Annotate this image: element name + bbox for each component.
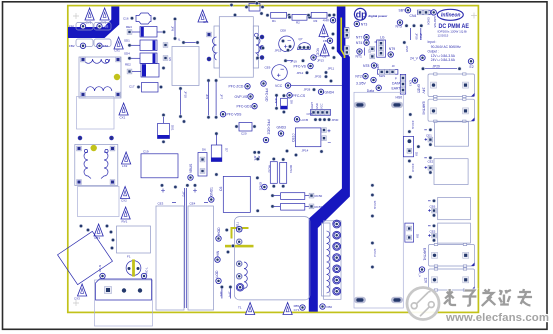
- svg-text:FB3: FB3: [103, 25, 109, 29]
- svg-text:C20: C20: [241, 132, 247, 136]
- capacitor CY3: [85, 8, 94, 25]
- svg-text:SD4: SD4: [124, 52, 130, 56]
- heatsink outline under L1: [77, 97, 115, 130]
- AC inlet connector body: [95, 280, 153, 326]
- varistor RV1: [121, 207, 130, 223]
- svg-text:dp: dp: [356, 10, 367, 20]
- svg-text:FB2: FB2: [69, 44, 75, 48]
- small cap top: [230, 3, 265, 17]
- svg-text:PFC-GD2: PFC-GD2: [267, 120, 271, 135]
- svg-text:Output :: Output :: [428, 50, 439, 54]
- capacitor C16: [123, 13, 156, 24]
- svg-text:LOD: LOD: [215, 270, 219, 278]
- pads near RT1: [79, 224, 83, 228]
- label 12V-G: [371, 183, 378, 218]
- svg-text:3.3/5V: 3.3/5V: [356, 81, 367, 85]
- svg-text:JP8: JP8: [171, 26, 175, 32]
- pad AC-N: [98, 265, 105, 279]
- testpoint VCC + wire: [275, 83, 342, 88]
- thermistor RT1 body rotated: [58, 231, 113, 284]
- pads near T1 top: [225, 228, 229, 232]
- diode D6: [198, 148, 207, 177]
- resistor RC52: [268, 157, 278, 188]
- svg-text:AC-N: AC-N: [98, 265, 102, 272]
- testpoint NT9: [388, 47, 395, 57]
- IC U2 triangle: [319, 25, 328, 40]
- svg-text:D8: D8: [290, 100, 294, 104]
- diode SD1: [124, 39, 168, 51]
- svg-text:NT1: NT1: [356, 55, 363, 59]
- svg-text:CF1: CF1: [203, 20, 209, 24]
- label Data: [367, 85, 382, 93]
- svg-text:www.elecfans.com: www.elecfans.com: [445, 312, 549, 324]
- svg-text:Infineon: Infineon: [441, 13, 460, 19]
- svg-text:VCC: VCC: [319, 103, 323, 109]
- T1 pin pads: [236, 226, 244, 291]
- heatsink HS0 big outline: [354, 92, 403, 308]
- testpoint GND3: [277, 126, 287, 137]
- svg-text:VBUS: VBUS: [189, 163, 193, 173]
- transformer T2: [207, 17, 264, 77]
- capacitor CX2: [121, 187, 130, 203]
- testpoint PFC-VDS: [220, 112, 242, 117]
- jumper JP28: [304, 88, 316, 92]
- testpoint LOD: [215, 270, 221, 284]
- jumper JP4: [228, 285, 233, 298]
- svg-text:NT5: NT5: [396, 25, 403, 29]
- capacitor CE2: [424, 156, 468, 185]
- testpoint C_U: [418, 267, 425, 278]
- svg-text:CY1: CY1: [294, 308, 300, 312]
- fiducial + top-left: [73, 13, 79, 19]
- capacitor CE3: [156, 202, 184, 311]
- svg-text:JP19: JP19: [290, 59, 297, 63]
- transformer LX2: [75, 136, 118, 185]
- transistor Q7: [298, 37, 311, 50]
- svg-text:JP6: JP6: [205, 94, 209, 100]
- jumper JP24 v: [419, 28, 423, 40]
- capacitor CY2: [100, 8, 109, 25]
- svg-text:CE9: CE9: [265, 66, 271, 70]
- testpoint +HV: [323, 18, 336, 23]
- connector EARTH0: [422, 98, 475, 122]
- svg-text:DATA: DATA: [392, 81, 401, 85]
- testpoint LCN5: [294, 117, 308, 122]
- svg-text:3MY: 3MY: [376, 63, 380, 69]
- svg-text:T1LP: T1LP: [236, 222, 240, 229]
- wire: main thick vertical trace with bend: [309, 7, 350, 312]
- jumper JP14: [294, 149, 323, 157]
- mounting pad bottom-right: [391, 297, 403, 303]
- svg-text:PFC-GD: PFC-GD: [265, 89, 269, 103]
- testpoint HOD: [216, 227, 221, 241]
- output choke connector body: [322, 221, 342, 299]
- svg-text:JP1: JP1: [219, 292, 223, 298]
- svg-text:D7: D7: [225, 148, 229, 152]
- jumper JP35: [315, 75, 328, 79]
- svg-text:JP14: JP14: [302, 149, 309, 153]
- svg-text:+HV: +HV: [323, 19, 330, 23]
- svg-text:CN4: CN4: [410, 14, 417, 18]
- capacitor C17: [129, 83, 163, 93]
- svg-text:FB4: FB4: [103, 44, 109, 48]
- connector EARTH1: [422, 243, 474, 267]
- svg-text:JP7: JP7: [220, 94, 224, 100]
- svg-text:24_V: 24_V: [410, 56, 419, 60]
- IC U3 triangle: [317, 44, 329, 63]
- connector 12V: [423, 268, 474, 291]
- svg-text:PFC-ZCD: PFC-ZCD: [229, 85, 244, 89]
- pad AC-L: [141, 267, 148, 279]
- svg-text:CE4: CE4: [190, 202, 196, 206]
- svg-text:CN5: CN5: [307, 112, 313, 116]
- net IL: [178, 38, 199, 45]
- svg-text:CE1: CE1: [426, 134, 432, 138]
- capacitor CE9: [265, 65, 288, 81]
- testpoint GND1: [209, 187, 214, 202]
- testpoint PFC-GD vertical: [261, 81, 269, 102]
- svg-text:C6: C6: [219, 187, 223, 191]
- svg-text:EARTH1: EARTH1: [422, 248, 426, 261]
- PCB board outline: [68, 6, 479, 313]
- svg-text:OVP-VS: OVP-VS: [235, 95, 249, 99]
- connector 24V: [422, 73, 475, 98]
- testpoint OVP-VS: [235, 94, 254, 99]
- svg-text:D9: D9: [416, 234, 420, 238]
- jumper JP29 v: [410, 28, 418, 40]
- svg-text:JP35: JP35: [315, 75, 322, 79]
- testpoint VBUS: [188, 163, 193, 180]
- diode D7: [211, 132, 228, 177]
- svg-text:CX3: CX3: [74, 297, 80, 301]
- fiducial + bottom-left: [73, 300, 79, 306]
- logo dp digital power: [354, 8, 388, 20]
- svg-text:CX1: CX1: [120, 116, 126, 120]
- svg-text:90-264V AC 50/60Hz: 90-264V AC 50/60Hz: [431, 45, 461, 49]
- svg-text:EARTH0: EARTH0: [422, 102, 426, 115]
- header D9: [403, 130, 420, 163]
- testpoint PFC-GD1: [237, 104, 258, 109]
- transformer T1 body: [234, 217, 310, 300]
- jumper JP7: [214, 79, 223, 120]
- svg-text:E5: E5: [168, 58, 172, 62]
- svg-text:digital power: digital power: [368, 14, 388, 18]
- pads left column: [256, 157, 260, 161]
- svg-text:12V: 12V: [423, 278, 427, 285]
- svg-text:D01: D01: [171, 125, 175, 131]
- svg-text:JF: JF: [392, 64, 395, 68]
- jumper JP13 wire: [284, 59, 305, 64]
- resistor RC54: [280, 158, 293, 189]
- svg-text:12/2015: 12/2015: [438, 34, 449, 38]
- svg-text:FB: FB: [323, 39, 327, 43]
- inductor LX2 triangle: [122, 152, 131, 168]
- fiducial + top-right: [471, 13, 477, 19]
- svg-text:SD1: SD1: [124, 39, 130, 43]
- svg-text:CE10: CE10: [292, 133, 296, 142]
- svg-text:R2: R2: [296, 21, 300, 25]
- svg-text:JP15: JP15: [275, 48, 282, 52]
- capacitor CE8: [279, 29, 295, 52]
- testpoint NT1: [356, 49, 363, 59]
- resistor R3: [307, 12, 332, 23]
- resistor RC50: [271, 193, 323, 200]
- svg-text:C_u: C_u: [418, 272, 422, 278]
- testpoint GND5: [412, 78, 420, 93]
- svg-text:NT7: NT7: [356, 35, 363, 39]
- svg-text:PFC-CS: PFC-CS: [293, 94, 306, 98]
- svg-text:NT8: NT8: [363, 64, 370, 68]
- resistor R1: [266, 12, 291, 23]
- svg-text:JP13: JP13: [317, 58, 324, 62]
- svg-text:RC50: RC50: [315, 194, 323, 198]
- capacitor CE4: [188, 202, 214, 311]
- testpoint NT4: [356, 40, 369, 45]
- svg-text:12V-G: 12V-G: [373, 201, 377, 210]
- resistor R2: [288, 14, 312, 24]
- svg-text:CE6: CE6: [430, 205, 436, 209]
- label 24V-G: [408, 113, 414, 130]
- svg-text:24V ⊔ 0.8A-3.6A: 24V ⊔ 0.8A-3.6A: [431, 58, 456, 62]
- svg-text:T1: T1: [238, 306, 242, 310]
- svg-text:LX2: LX2: [122, 164, 128, 168]
- transformer L1: [79, 57, 121, 98]
- jumper JP10: [179, 87, 188, 124]
- label 12V-H: [371, 241, 378, 269]
- diode D01: [158, 113, 175, 144]
- testpoint PFC-CS: [287, 93, 306, 98]
- svg-text:GND3: GND3: [277, 126, 287, 130]
- svg-text:24V-G: 24V-G: [411, 121, 415, 130]
- choke winding: [327, 231, 330, 293]
- jumper JP11: [324, 66, 334, 74]
- svg-text:GND4: GND4: [325, 90, 335, 94]
- svg-text:GND5: GND5: [417, 84, 421, 93]
- AC inlet connector: [96, 279, 152, 300]
- svg-text:PFC-VS: PFC-VS: [294, 65, 307, 69]
- svg-text:JP26: JP26: [405, 46, 409, 53]
- svg-text:Input :: Input :: [428, 40, 437, 44]
- svg-text:JP29: JP29: [433, 65, 440, 69]
- capacitor CX3: [74, 284, 87, 301]
- diode D8: [281, 94, 294, 114]
- resistor RE2: [125, 63, 165, 78]
- pads row: [405, 24, 409, 28]
- svg-text:EARTH5: EARTH5: [433, 17, 437, 28]
- svg-text:CX2: CX2: [121, 199, 127, 203]
- capacitor C19: [141, 150, 178, 178]
- svg-text:CE8: CE8: [280, 29, 286, 33]
- capacitor C20: [235, 123, 257, 136]
- svg-text:AC-L: AC-L: [145, 267, 149, 274]
- capacitor CE5: [428, 223, 470, 243]
- testpoint FB: [323, 38, 333, 43]
- jumper JP2: [182, 188, 187, 308]
- inductor LX1: [114, 37, 123, 53]
- svg-text:P: P: [395, 76, 397, 80]
- capacitor CF1: [198, 10, 209, 24]
- svg-text:GND6: GND6: [427, 17, 431, 25]
- jumper JP6: [205, 79, 210, 120]
- jumper JP9: [274, 93, 279, 110]
- choke connector ring pads: [333, 220, 341, 295]
- svg-text:JP29: JP29: [414, 33, 418, 40]
- svg-text:FB1: FB1: [69, 25, 75, 29]
- mounting pad bottom-left: [354, 297, 366, 303]
- svg-text:D6: D6: [202, 148, 206, 152]
- ferrite bead FB1: [69, 23, 93, 31]
- header CN4: [410, 10, 437, 18]
- svg-text:F1: F1: [127, 255, 131, 259]
- svg-text:C19: C19: [143, 150, 149, 154]
- svg-text:CE2: CE2: [428, 160, 434, 164]
- jumper JP1: [219, 285, 224, 298]
- header D9b: [405, 223, 420, 242]
- diode SD4: [124, 52, 168, 64]
- svg-text:LX1: LX1: [115, 49, 121, 53]
- svg-text:GND1: GND1: [210, 187, 214, 197]
- thermistor RT1 triangle: [94, 224, 103, 240]
- watermark chinese characters: [444, 289, 532, 306]
- svg-text:C16: C16: [123, 17, 129, 21]
- testpoint PFC-GD2 vertical: [263, 120, 270, 143]
- svg-text:JP9: JP9: [274, 98, 278, 104]
- svg-text:LCN5: LCN5: [301, 118, 309, 122]
- jumper JP15: [275, 48, 290, 52]
- svg-text:SW1: SW1: [379, 74, 386, 78]
- svg-text:R3: R3: [314, 19, 318, 23]
- header left edge b: [344, 46, 349, 55]
- jumpers JP5 JP5: [253, 151, 261, 161]
- header left edge a: [344, 28, 349, 39]
- watermark logo circle: [407, 288, 439, 320]
- svg-text:JP2: JP2: [182, 192, 186, 198]
- svg-text:JP10: JP10: [184, 91, 188, 98]
- svg-text:NT4: NT4: [356, 41, 363, 45]
- header SW1: [376, 63, 398, 78]
- resistor RE3: [126, 25, 166, 37]
- testpoint PFC-ZCD: [229, 84, 251, 89]
- svg-text:24V-R: 24V-R: [411, 164, 415, 173]
- svg-text:D9: D9: [415, 152, 419, 156]
- logo Infineon: [437, 9, 463, 20]
- svg-text:C17: C17: [129, 85, 135, 89]
- fuse F1: [126, 255, 141, 277]
- svg-text:JP12: JP12: [297, 71, 304, 75]
- svg-text:LG: LG: [380, 36, 385, 40]
- header CN3: [400, 74, 412, 94]
- pad FB0: [320, 304, 333, 309]
- svg-text:RV1: RV1: [122, 219, 128, 223]
- svg-text:IL: IL: [178, 38, 181, 42]
- svg-text:HOD: HOD: [217, 227, 221, 235]
- resistor RC53: [271, 203, 323, 210]
- mounting pad top-right: [391, 102, 403, 108]
- testpoint NT2: [355, 74, 376, 83]
- ferrite FB5 / cap CY1 triangle: [283, 303, 300, 315]
- testpoint NT5: [396, 20, 403, 29]
- box right of RT1: [117, 226, 151, 253]
- testpoint NT8: [363, 63, 377, 68]
- pad FB6 under trace: [300, 305, 305, 310]
- svg-text:Q7: Q7: [299, 37, 303, 41]
- yellow annotation line: [225, 245, 254, 248]
- ferrite bead FB2: [69, 39, 93, 49]
- label 24V-R: [408, 164, 414, 179]
- svg-text:GND: GND: [315, 103, 319, 109]
- jumper row JP30: [314, 118, 339, 122]
- svg-text:E2: E2: [470, 65, 474, 69]
- svg-text:JP30: JP30: [332, 118, 339, 122]
- svg-text:PFC-GD1: PFC-GD1: [237, 105, 252, 109]
- pads row mid: [160, 184, 164, 188]
- watermark: [407, 288, 549, 325]
- capacitor C6: [219, 176, 250, 212]
- jumper JP12: [297, 71, 309, 75]
- svg-text:NT3: NT3: [361, 22, 368, 26]
- svg-text:CE5: CE5: [430, 230, 436, 234]
- svg-text:RC53: RC53: [315, 205, 323, 209]
- svg-text:HIN: HIN: [216, 250, 220, 256]
- svg-text:NT2: NT2: [355, 75, 362, 79]
- testpoint VCC1: [311, 48, 320, 60]
- svg-text:VCC: VCC: [275, 84, 283, 88]
- jumper JP26: [402, 41, 408, 53]
- testpoint PFC-VS: [294, 63, 314, 68]
- svg-text:RC52: RC52: [268, 165, 272, 173]
- jumper D2: [365, 46, 375, 58]
- svg-text:NT9: NT9: [389, 47, 396, 51]
- testpoint NT3: [354, 21, 367, 26]
- capacitor CE6: [428, 197, 470, 219]
- ferrite bead FB4: [94, 39, 111, 49]
- label E2: [468, 59, 473, 69]
- svg-text:RE2: RE2: [125, 63, 131, 67]
- svg-text:CE3: CE3: [158, 202, 164, 206]
- IC U1 heatsink box: [172, 47, 199, 86]
- testpoint 24_V: [410, 55, 425, 60]
- testpoint NT7: [356, 35, 369, 40]
- yellow annotation bracket at HOD: [232, 228, 249, 239]
- svg-text:FB0: FB0: [327, 305, 333, 309]
- svg-text:RC54: RC54: [289, 165, 293, 173]
- testpoint SBY: [399, 8, 411, 13]
- heatsink outline under LX2: [78, 187, 120, 217]
- svg-text:12V-H: 12V-H: [373, 249, 377, 257]
- svg-text:UART: UART: [310, 102, 314, 109]
- svg-text:JP24: JP24: [419, 33, 423, 40]
- svg-text:JP28: JP28: [304, 88, 311, 92]
- scattered pads: [255, 1, 259, 5]
- svg-text:PFC-VDS: PFC-VDS: [227, 113, 243, 117]
- jumper JP29: [421, 65, 461, 71]
- capacitor CE1: [424, 122, 468, 147]
- yellow annotation line inside trace: [341, 18, 344, 59]
- header LG: [375, 36, 386, 58]
- transformer T1 triangle: [238, 303, 255, 315]
- jumper JP8: [171, 17, 177, 40]
- svg-text:24V: 24V: [422, 88, 426, 95]
- testpoint GND4: [318, 89, 334, 94]
- capacitor CX1: [119, 103, 128, 120]
- wire: thick copper trace elbow top-left: [68, 7, 119, 39]
- header CN5 UART: [307, 102, 331, 116]
- svg-text:JP11: JP11: [328, 66, 335, 70]
- svg-text:R1: R1: [272, 19, 276, 23]
- testpoint HIN: [215, 250, 220, 262]
- capacitor CE10: [292, 128, 331, 147]
- T1 winding: [244, 262, 247, 288]
